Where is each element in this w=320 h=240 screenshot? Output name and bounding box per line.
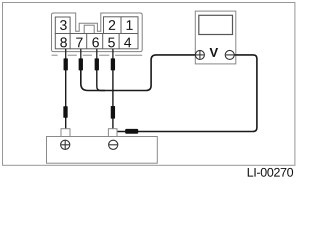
- connector housing: [52, 13, 143, 52]
- pin number 8: [60, 37, 67, 47]
- connector lower shell broken edge: [52, 54, 143, 56]
- wire voltmeter minus to battery minus: [117, 55, 257, 132]
- battery minus terminal post: [108, 129, 117, 137]
- pin number 3: [60, 20, 67, 30]
- sleeve on battery minus lead: [111, 106, 115, 119]
- pin number 5: [108, 38, 115, 48]
- figure label LI-00270: [248, 168, 293, 177]
- wire pin 6 joining voltmeter plus wire: [97, 70, 105, 91]
- battery plus symbol: [61, 140, 70, 149]
- pin 8 terminal stub: [65, 49, 67, 60]
- probe sleeve on pin 7: [79, 58, 83, 70]
- voltmeter display: [199, 15, 233, 34]
- probe sleeve on pin 8: [64, 58, 68, 70]
- pin number 4: [124, 38, 131, 48]
- voltmeter plus terminal: [195, 50, 204, 59]
- voltmeter minus terminal: [225, 50, 234, 59]
- pin cavities 2 and 1: [104, 17, 139, 34]
- wire pin 8 to battery plus: [65, 70, 67, 129]
- battery minus symbol: [109, 140, 118, 149]
- pin cavities 8 7 6 5 4: [55, 34, 138, 49]
- pin 5 terminal stub: [112, 49, 114, 60]
- sleeve on battery plus lead: [63, 106, 67, 118]
- probe sleeve on pin 6: [95, 58, 99, 70]
- voltmeter body: [195, 11, 236, 64]
- pin 7 terminal stub: [80, 49, 82, 60]
- pin number 6: [92, 37, 98, 47]
- voltmeter V label: [210, 48, 219, 57]
- wire pin 7 to voltmeter plus: [81, 55, 196, 91]
- pin number 2: [109, 20, 115, 30]
- pin cavity 3: [55, 17, 70, 34]
- pin 6 terminal stub: [96, 49, 98, 60]
- pin number 7: [76, 38, 82, 48]
- connector latch tab: [84, 25, 94, 34]
- sleeve on voltmeter minus lead: [125, 129, 138, 134]
- probe sleeve on pin 5: [111, 58, 115, 70]
- battery body: [47, 137, 158, 164]
- wire pin 5 to battery minus: [112, 70, 114, 129]
- battery plus terminal post: [61, 129, 70, 137]
- pin number 1: [127, 20, 133, 30]
